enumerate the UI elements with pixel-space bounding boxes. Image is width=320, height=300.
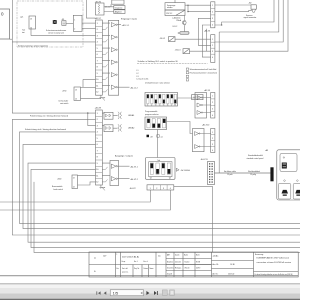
converter G2	[165, 0, 185, 16]
svg-text:3: 3	[212, 108, 213, 110]
legend checkboxes	[186, 68, 217, 81]
svg-text:10: 10	[96, 79, 99, 81]
svg-text:11: 11	[96, 86, 99, 88]
svg-text:-A1.X2: -A1.X2	[130, 187, 137, 190]
svg-text:brake switch: brake switch	[54, 188, 63, 191]
wire to buzzer top	[215, 4, 251, 6]
filter A1.X6	[95, 1, 110, 15]
svg-text:-S7D: -S7D	[62, 91, 67, 93]
wire lower bundle 6	[34, 182, 300, 253]
svg-text:Programmwahl-: Programmwahl-	[145, 111, 158, 113]
svg-text:1: 1	[150, 188, 151, 190]
wire branch to X8 cell3	[88, 113, 96, 126]
svg-text:Datum: Datum	[175, 254, 180, 257]
optocoupler MB.A2	[102, 124, 134, 131]
svg-text:-B2: -B2	[249, 3, 252, 5]
svg-text:Standardbedienfeld: Standardbedienfeld	[248, 154, 263, 157]
svg-text:+A1.V1.2: +A1.V1.2	[130, 178, 138, 181]
svg-text:Ausgänge / outputs: Ausgänge / outputs	[115, 155, 133, 158]
svg-text:KLEMMPLAN B LVSII Vollversion: KLEMMPLAN B LVSII Vollversion	[257, 256, 290, 259]
ground X7	[100, 95, 106, 100]
svg-text:L2: L2	[137, 73, 139, 75]
toolbar layout icon 1	[162, 290, 167, 295]
wire housing to X7 cell1	[82, 22, 96, 24]
svg-text:Fahrtrichtung vor / driving di: Fahrtrichtung vor / driving direction fo…	[30, 114, 68, 117]
pushbutton Q1	[20, 16, 36, 34]
svg-text:S5: S5	[163, 104, 165, 106]
buzzer B2	[244, 3, 257, 20]
svg-text:=: =	[94, 257, 96, 261]
svg-text:6: 6	[97, 144, 99, 146]
wire from top into X7	[86, 0, 95, 18]
sensor B1	[62, 19, 67, 26]
wire B1 to housing	[66, 22, 73, 24]
dashed enclosure (machine options)	[17, 1, 83, 47]
svg-text:12: 12	[96, 182, 99, 184]
svg-text:10: 10	[96, 169, 99, 171]
svg-text:-S6.L3: -S6.L3	[175, 49, 181, 51]
legend switch position heading	[137, 60, 208, 63]
svg-text:Abgleich: Abgleich	[115, 11, 122, 14]
svg-text:-Q1: -Q1	[20, 17, 24, 19]
svg-text:connection scheme B LVSII full: connection scheme B LVSII full version	[257, 261, 292, 264]
wire nested loop 3	[205, 29, 207, 51]
svg-text:4: 4	[212, 25, 213, 27]
wire S5D to X8 cell11	[78, 175, 96, 177]
svg-text:0: 0	[1, 12, 4, 17]
wire program selector to Tab block	[157, 130, 159, 158]
wire filter to diagnose	[104, 4, 114, 11]
svg-text:off: off	[150, 136, 153, 138]
wire main left vertical to X8 cell1	[12, 0, 95, 113]
wire to X7 cell4	[12, 41, 95, 43]
svg-text:S4: S4	[159, 104, 161, 106]
svg-text:13: 13	[30, 19, 32, 21]
DIP block S1 rotation selector	[145, 82, 178, 107]
svg-text:-A1.X11: -A1.X11	[201, 158, 209, 161]
svg-text:13: 13	[73, 178, 75, 180]
node junction on forward wire	[87, 112, 88, 113]
svg-text:Gezeichn.: Gezeichn.	[167, 268, 174, 270]
title block	[89, 252, 298, 277]
terminal strip A1.X9	[211, 93, 215, 119]
battery box X0	[0, 9, 10, 39]
svg-text:Norm: Norm	[196, 254, 200, 257]
sensor B3 recovery tank	[46, 20, 67, 35]
svg-text:14: 14	[75, 99, 77, 101]
svg-text:Art. Nr.:: Art. Nr.:	[213, 273, 219, 276]
svg-text:Datum: Datum	[144, 267, 149, 270]
svg-text:7: 7	[97, 151, 99, 153]
svg-text:S6: S6	[167, 104, 169, 106]
svg-text:3: 3	[163, 188, 164, 190]
svg-text:12V DC: 12V DC	[166, 13, 173, 15]
svg-text:-A1.X7: -A1.X7	[95, 17, 102, 20]
input amplifier block	[102, 20, 137, 95]
svg-text:-S5D: -S5D	[57, 178, 62, 180]
svg-text:Sonderausstattung / optional e: Sonderausstattung / optional equipment	[18, 45, 48, 48]
svg-text:3: 3	[212, 18, 213, 20]
svg-text:Fert. del.: Fert. del.	[122, 267, 129, 270]
DIP legend off/on	[147, 135, 163, 139]
svg-text:15 polig: 15 polig	[250, 174, 256, 176]
DIP block Tab	[146, 158, 176, 180]
terminal strip A1.X10	[211, 129, 215, 153]
terminal strip A1.X3	[211, 35, 215, 63]
svg-text:1/5: 1/5	[113, 290, 119, 295]
svg-text:S8: S8	[174, 104, 176, 106]
switch S6.L3	[175, 49, 190, 54]
wire row right down	[174, 187, 213, 252]
svg-text:-A1.X9: -A1.X9	[204, 89, 211, 92]
svg-text:2: 2	[212, 138, 213, 140]
svg-text:2: 2	[97, 119, 99, 121]
ribbon connector bar	[270, 167, 273, 181]
svg-text:Eingänge / inputs: Eingänge / inputs	[121, 17, 137, 20]
svg-text:4: 4	[212, 150, 213, 152]
pointer and part number	[176, 168, 190, 172]
svg-text:-V1.L2: -V1.L2	[172, 26, 177, 28]
switch S6.L2	[160, 37, 176, 42]
svg-text:on: on	[161, 136, 163, 138]
fuse F1	[178, 25, 189, 34]
wire R1 cell3 loop	[198, 18, 210, 45]
wire S6.L2 to X3 cell1	[175, 38, 211, 40]
svg-text:1/4 Bl.: 1/4 Bl.	[230, 264, 235, 266]
svg-text:04.11.02: 04.11.02	[175, 262, 181, 264]
svg-text:1: 1	[212, 132, 213, 134]
connector housing X1	[73, 15, 82, 31]
svg-text:1: 1	[212, 5, 213, 7]
wire to buzzer bottom	[215, 11, 252, 12]
terminal strip A1.X8	[95, 106, 103, 185]
svg-text:flat ribbon cable: flat ribbon cable	[224, 170, 236, 173]
svg-text:13: 13	[75, 90, 77, 92]
svg-text:4: 4	[212, 57, 213, 59]
svg-text:Flachbandkabel: Flachbandkabel	[248, 171, 261, 173]
wire DIP1 to driver	[178, 97, 196, 99]
wire R1 cell4 loop	[202, 25, 210, 57]
svg-text:+A1.L1.2: +A1.L1.2	[130, 86, 138, 89]
wire row cell1 down-left	[0, 190, 150, 202]
svg-text:9: 9	[97, 73, 99, 75]
wire loop right 4	[215, 0, 288, 51]
svg-text:-Nr 5564.A: -Nr 5564.A	[181, 169, 191, 172]
wire loop right 3	[215, 0, 283, 42]
wire DIP to X10 driver	[167, 122, 193, 134]
wire row cell4 down-left	[0, 190, 170, 210]
svg-text:-A3: -A3	[265, 149, 269, 152]
svg-text:-A1.X8: -A1.X8	[95, 106, 102, 109]
wire G2 to R1 cells	[185, 5, 211, 11]
connector A1.X11	[208, 162, 215, 185]
toolbar first page button	[96, 291, 106, 294]
svg-text:7: 7	[97, 61, 99, 63]
DIP block S2 program selector	[145, 111, 167, 130]
svg-text:Name: Name	[150, 268, 154, 270]
transistor V1	[182, 16, 186, 26]
svg-text:178mA: 178mA	[176, 19, 182, 22]
svg-text:ABT: ABT	[167, 254, 170, 257]
page frame bottom	[0, 275, 298, 277]
svg-text:3: 3	[212, 51, 213, 53]
svg-text:+A1.L1.1: +A1.L1.1	[122, 24, 130, 27]
wire housing to X7 cell2	[82, 28, 96, 30]
wire loop R1 cell4 right	[215, 0, 274, 25]
svg-text:S2: S2	[151, 104, 153, 106]
svg-text:Schmutzwassertank voll / tank: Schmutzwassertank voll / tank filled	[190, 68, 217, 71]
svg-text:2027+060 (9.A4.A): 2027+060 (9.A4.A)	[122, 256, 139, 259]
svg-text:Schalter in Stellung 30.1 swit: Schalter in Stellung 30.1 switch in posi…	[138, 60, 179, 63]
wire X8 cell6 long	[23, 144, 300, 228]
svg-text:-MB.A1: -MB.A1	[128, 114, 134, 117]
svg-text:Ers. f.: Ers. f.	[134, 260, 139, 263]
terminal strip A1.X7	[95, 17, 103, 95]
long vertical wire	[218, 32, 220, 173]
svg-text:Diagnose: Diagnose	[115, 8, 123, 10]
svg-text:signal transmitter: signal transmitter	[244, 16, 257, 19]
svg-text:L4 nach rechts: L4 nach rechts	[137, 78, 149, 81]
svg-text:Frischwassertank leer / cleane: Frischwassertank leer / cleaned tank	[190, 72, 218, 75]
wire X8 cell9 long	[28, 163, 300, 242]
svg-text:1: 1	[117, 254, 118, 256]
box Diagnose	[114, 6, 125, 10]
wire	[10, 38, 13, 40]
svg-text:L3: L3	[137, 76, 139, 78]
svg-text:11: 11	[96, 176, 99, 178]
svg-text:5: 5	[97, 138, 99, 140]
toolbar next page button	[146, 291, 149, 295]
svg-text:4: 4	[97, 132, 99, 134]
ribbon cable wire	[215, 170, 271, 176]
wire Q1 to X7 cell3	[31, 29, 96, 36]
seat switch S7D	[59, 87, 81, 105]
svg-text:Für diese Unterlage behalten w: Für diese Unterlage behalten wir uns all…	[255, 273, 294, 276]
svg-text:Fahrtrichtung rück / driving d: Fahrtrichtung rück / driving direction b…	[25, 128, 66, 131]
svg-text:-MB.A2: -MB.A2	[128, 127, 134, 130]
legend list L	[137, 70, 149, 80]
wire S7D to X7 cell11	[81, 87, 96, 89]
svg-text:8: 8	[97, 67, 99, 69]
svg-text:spare no.: spare no.	[122, 271, 129, 274]
svg-text:+A1.Az.:: +A1.Az.:	[213, 255, 220, 258]
svg-text:9: 9	[97, 163, 99, 165]
svg-text:12: 12	[96, 92, 99, 94]
wire S6.L3 to X3 cell3	[190, 50, 211, 52]
svg-text:+A1.V1.1: +A1.V1.1	[130, 165, 138, 168]
wire S7D to X7 cell12	[81, 98, 101, 100]
ground X8	[100, 185, 106, 190]
svg-text:4: 4	[170, 188, 171, 190]
svg-text:Ers. d.: Ers. d.	[144, 260, 149, 263]
svg-text:3: 3	[97, 126, 99, 128]
svg-text:Bearbeit.: Bearbeit.	[167, 261, 174, 264]
svg-text:Geprüft: Geprüft	[167, 273, 173, 276]
svg-text:Ers.: Ers.	[117, 267, 120, 270]
svg-text:program selector: program selector	[145, 113, 159, 116]
svg-text:-S6.L2: -S6.L2	[160, 38, 166, 40]
svg-text:2: 2	[156, 188, 157, 190]
svg-text:S1: S1	[147, 104, 149, 106]
svg-text:sensor recovery tank: sensor recovery tank	[48, 32, 64, 35]
svg-text:Krämer: Krämer	[185, 261, 190, 264]
svg-text:1: 1	[212, 96, 213, 98]
svg-text:4: 4	[97, 42, 99, 44]
wire X8 cell2 long	[12, 119, 300, 235]
svg-text:Drehzahlmesser / ratio selecto: Drehzahlmesser / ratio selector	[145, 82, 170, 85]
svg-text:2: 2	[74, 28, 75, 30]
toolbar last page button	[154, 291, 158, 295]
svg-text:wandler: wandler	[167, 7, 173, 9]
toolbar	[0, 284, 300, 300]
box Abgleich	[114, 10, 125, 14]
svg-text:(-)Batterie: (-)Batterie	[173, 16, 181, 19]
svg-text:2: 2	[97, 29, 99, 31]
svg-text:40719: 40719	[196, 268, 200, 270]
wire X8 cell10 long	[31, 169, 300, 247]
wire loop right 2	[219, 0, 279, 32]
svg-text:Remigius: Remigius	[175, 268, 182, 270]
output driver block	[102, 161, 138, 186]
svg-text:3: 3	[97, 36, 99, 38]
wire X8 cell4 long	[20, 132, 301, 224]
svg-text:Urspr.: Urspr.	[122, 260, 127, 263]
svg-text:1: 1	[212, 39, 213, 41]
capacitor C1	[192, 95, 203, 100]
svg-text:6: 6	[97, 54, 99, 56]
svg-text:E DIN: E DIN	[196, 262, 200, 264]
svg-text:14: 14	[73, 187, 75, 189]
wire S7D to X7 cell10	[83, 79, 96, 87]
svg-text:2: 2	[212, 102, 213, 104]
toolbar page number field	[110, 290, 143, 296]
svg-text:1: 1	[74, 20, 75, 22]
svg-text:Zen.: Zen.	[158, 256, 162, 258]
control panel A3	[277, 150, 303, 200]
indicator H1	[112, 0, 124, 4]
svg-text:2: 2	[212, 12, 213, 14]
svg-text:Anz. Bl.:: Anz. Bl.:	[213, 263, 220, 266]
svg-text:S3: S3	[155, 104, 157, 106]
svg-text:+: +	[94, 270, 96, 274]
svg-text:L1: L1	[137, 70, 139, 72]
terminal strip A2.X1	[211, 2, 215, 28]
svg-text:S7: S7	[171, 104, 173, 106]
svg-text:Bremsmodule: Bremsmodule	[52, 185, 62, 188]
optocoupler MB.A1	[102, 112, 134, 119]
toolbar layout icon 2	[170, 290, 175, 295]
svg-text:15 pole: 15 pole	[227, 174, 233, 176]
svg-text:Proj. Nr.: Proj. Nr.	[134, 267, 140, 270]
svg-text:8: 8	[97, 157, 99, 159]
svg-text:standard control panel: standard control panel	[247, 157, 264, 160]
svg-text:Name: Name	[184, 255, 188, 257]
svg-text:4: 4	[212, 115, 213, 117]
svg-text:2027: 2027	[103, 256, 107, 258]
svg-text:-A1.X3: -A1.X3	[204, 29, 211, 32]
driver block A1.X9	[195, 93, 211, 119]
svg-text:-A1.X10: -A1.X10	[202, 124, 210, 127]
svg-text:2: 2	[212, 45, 213, 47]
svg-text:5: 5	[97, 48, 99, 50]
svg-text:Spannungs-: Spannungs-	[167, 5, 176, 7]
driver block A1.X10	[193, 129, 211, 152]
svg-text:3: 3	[212, 144, 213, 146]
svg-text:2027-00: 2027-00	[228, 274, 234, 276]
terminal row 1234	[147, 185, 174, 190]
svg-text:1: 1	[97, 113, 99, 115]
wire S5D to X8 cell12	[78, 182, 96, 185]
brake switch S5D	[52, 175, 78, 191]
svg-text:Benennung:: Benennung:	[255, 254, 264, 256]
svg-text:Wiesler: Wiesler	[185, 267, 191, 270]
svg-text:seat switch: seat switch	[60, 102, 68, 105]
svg-text:1: 1	[97, 23, 99, 25]
